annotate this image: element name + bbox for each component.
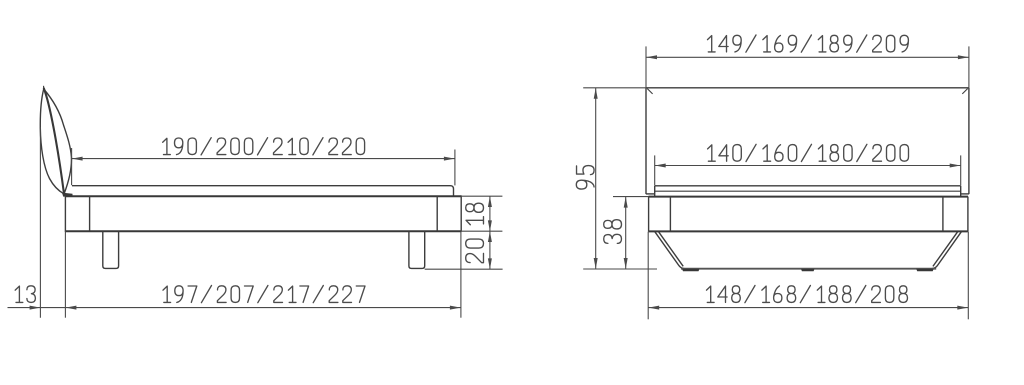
dim 38 line: [625, 197, 627, 269]
dim 190/200/210/220 extension line left: [71, 148, 73, 185]
headboard corner tick right: [962, 89, 967, 94]
dim 148/168/188/208 extension right: [967, 232, 969, 319]
headboard cushion bottom wedge: [62, 193, 73, 197]
dim text 18: [466, 203, 484, 225]
frame bottom edge (front): [649, 230, 968, 232]
dim text 13: [15, 286, 35, 303]
headboard cushion tip stub: [43, 86, 45, 90]
base right diagonal outer: [932, 232, 961, 269]
floor extension line right of legs: [425, 268, 503, 270]
dim 149/169/189/209 extension left: [645, 46, 647, 87]
base foot pad right: [916, 269, 934, 271]
headboard bottom edge right segment: [961, 193, 969, 195]
headboard cushion fold line: [44, 89, 64, 194]
frame right edge (front): [967, 197, 969, 232]
bed frame top edge: [65, 195, 461, 197]
foot block inner edge: [436, 196, 438, 231]
left rail inner edge: [669, 197, 671, 232]
headboard bottom edge left segment: [646, 193, 655, 195]
floor extension line left (for 95/38): [583, 268, 657, 270]
base left diagonal inner: [659, 232, 684, 266]
dim 20 line: [489, 231, 491, 269]
bed frame bottom edge: [65, 230, 461, 232]
extension line frame left down to bottom dim: [64, 231, 66, 318]
mattress top edge (front): [655, 185, 961, 187]
dim 149/169/189/209 line: [646, 56, 969, 58]
headboard cushion outer left curve: [40, 89, 64, 194]
dim text 190/200/210/220: [163, 138, 365, 155]
dim text 148/168/188/208: [707, 286, 908, 303]
dim 140/160/180/200 line: [655, 165, 961, 167]
mattress left edge (front): [654, 186, 656, 197]
right rail inner edge: [942, 197, 944, 232]
dim text 95: [576, 166, 594, 190]
dim 18 extension bottom / dim 20 extension top: [461, 230, 502, 232]
mattress seam line: [655, 190, 961, 192]
dim text 140/160/180/200: [708, 144, 909, 161]
base foot pad left: [682, 269, 700, 271]
dim text 20: [466, 239, 484, 263]
base left diagonal outer: [655, 232, 685, 269]
dim 95 extension top: [583, 87, 646, 89]
headboard right edge: [968, 88, 970, 194]
dim 95 line: [595, 88, 597, 269]
extension line frame right down to bottom dim: [460, 232, 462, 318]
dim 149/169/189/209 extension right: [968, 46, 970, 87]
headboard cushion outer right curve: [44, 89, 72, 194]
dim text 197/207/217/227: [163, 286, 365, 303]
frame top edge (front): [649, 196, 969, 198]
head block inner edge: [89, 196, 91, 231]
right leg: [409, 231, 425, 268]
bed frame left edge: [64, 195, 66, 231]
dim 190/200/210/220 extension line right: [454, 150, 456, 186]
dim 38 extension top: [613, 196, 649, 198]
dim 140/160/180/200 extension left: [654, 155, 656, 185]
dim text 38: [604, 220, 622, 244]
dim 18 line: [489, 196, 491, 231]
left leg: [103, 231, 119, 268]
dim text 149/169/189/209: [708, 35, 909, 52]
mattress right edge (front): [960, 186, 962, 197]
bed frame right edge: [460, 195, 462, 231]
frame left edge (front): [648, 197, 650, 232]
mattress top edge with right corner: [72, 186, 454, 197]
dim 140/160/180/200 extension right: [960, 155, 962, 185]
base foot pad center: [801, 269, 815, 271]
dim 190/200/210/220 line: [72, 158, 455, 160]
bottom dim line 13 + 197/207/217/227: [8, 307, 461, 309]
headboard top edge: [646, 87, 969, 89]
dim 148/168/188/208 extension left: [647, 232, 649, 319]
headboard corner tick left: [647, 89, 652, 94]
dim 148/168/188/208 line: [648, 307, 968, 309]
extension line from cushion tip down to bottom dim: [39, 127, 41, 318]
base right diagonal inner: [933, 232, 958, 267]
headboard left edge: [645, 88, 647, 194]
dim 18 extension top: [461, 195, 502, 197]
base bottom edge: [681, 268, 936, 270]
